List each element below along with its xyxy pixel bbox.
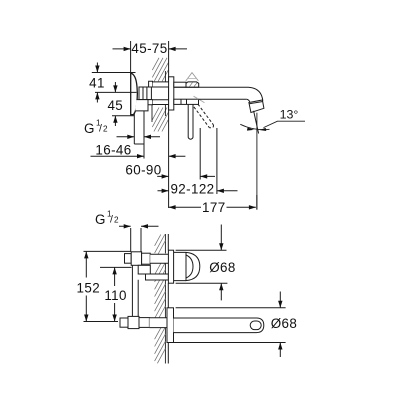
dim 45-75 tails and arrows <box>113 48 188 50</box>
lower tube trim <box>174 99 199 104</box>
spout escutcheon <box>167 308 174 343</box>
spout bottom line <box>199 98 247 100</box>
svg-text:Ø68: Ø68 <box>209 260 236 275</box>
wall hatch lower <box>152 108 168 132</box>
svg-text:13°: 13° <box>280 107 299 121</box>
aerator seam <box>250 102 263 104</box>
valve stub cap <box>125 254 132 264</box>
top tube collar <box>149 81 153 87</box>
bottom tube mask <box>153 100 169 104</box>
dim 177 right ext <box>256 195 258 210</box>
svg-text:G: G <box>95 212 106 227</box>
dim Ø68 spout <box>170 308 286 343</box>
G1/2 top label leader <box>117 136 161 138</box>
wall hatch upper <box>152 58 168 82</box>
dim 92-122 arrows <box>158 190 238 192</box>
handle dashed alternate <box>194 104 214 128</box>
svg-text:2: 2 <box>103 125 108 134</box>
spout tube inner end <box>250 321 261 330</box>
svg-text:60-90: 60-90 <box>125 163 161 178</box>
dim 45-75 ext bar left <box>130 41 132 73</box>
svg-text:92-122: 92-122 <box>170 181 214 196</box>
svg-text:16-46: 16-46 <box>95 143 131 158</box>
dim 45 ext line <box>112 115 135 117</box>
dim 110 <box>100 267 132 321</box>
dim 41 ext lines <box>92 73 137 93</box>
valve stub right <box>142 253 151 264</box>
housing division lines <box>143 87 147 100</box>
upper tube trim <box>174 82 186 87</box>
svg-text:152: 152 <box>77 281 101 296</box>
dim 45 arrows <box>114 82 116 126</box>
wall hatch bottom view <box>155 235 166 364</box>
13 deg arc arrowheads <box>247 128 266 132</box>
spout inner curve <box>247 99 250 102</box>
ext line x200 <box>199 128 201 180</box>
spray direction line 13deg <box>254 111 259 134</box>
spout outer curve <box>249 87 263 101</box>
spout tube through wall <box>149 318 168 328</box>
valve housing lower <box>135 100 148 111</box>
bracket vertical bar <box>132 265 138 316</box>
svg-text:2: 2 <box>114 216 119 225</box>
wall finished surface line <box>168 41 170 208</box>
rough-in box edge below tube <box>151 105 153 122</box>
spout nut <box>186 82 199 87</box>
spout center ext line <box>84 321 119 323</box>
svg-text:110: 110 <box>104 288 127 303</box>
spout stub right <box>139 318 149 328</box>
dim 152 <box>84 251 132 321</box>
valve escutcheon <box>168 250 173 283</box>
svg-text:41: 41 <box>89 75 105 90</box>
top tube mask <box>153 82 169 86</box>
rough-in flange dome <box>131 73 138 115</box>
lower tube divisions <box>181 99 187 104</box>
bracket block <box>138 265 150 274</box>
wall inner line lower <box>164 105 166 116</box>
svg-text:45: 45 <box>107 98 123 113</box>
trim flange plate <box>169 77 174 110</box>
ext line x217 <box>216 128 218 194</box>
top tube behind wall <box>149 82 169 87</box>
handle rod down <box>188 104 193 139</box>
svg-text:Ø68: Ø68 <box>271 316 298 331</box>
spout stub cap <box>120 318 128 327</box>
spout top line <box>174 86 249 88</box>
valve tube through wall <box>150 254 168 263</box>
wall surface line bottom view <box>167 234 169 364</box>
dim 41 arrows <box>96 63 98 103</box>
bottom tube behind wall <box>153 100 169 105</box>
G1/2 stub line left <box>133 113 135 145</box>
svg-text:45-75: 45-75 <box>131 41 167 56</box>
spout stub main <box>128 316 139 328</box>
dim 16-46 line <box>91 155 186 157</box>
G1/2 stub ext lines bottom view <box>131 228 141 252</box>
wall inner line upper <box>164 71 166 82</box>
knob inner arc <box>186 255 193 278</box>
bracket arm to wall <box>146 274 169 280</box>
vertical reference line from aerator <box>256 113 258 210</box>
13 deg leader <box>264 121 306 127</box>
13 deg arc <box>240 124 269 129</box>
knob body <box>174 252 186 280</box>
G1/2 stub line right <box>143 111 145 159</box>
nut tick marks <box>190 82 198 86</box>
dim G1/2 bottom label <box>119 225 159 227</box>
valve housing <box>139 87 151 100</box>
dim 177 line <box>169 206 256 208</box>
svg-text:/: / <box>99 123 102 135</box>
phantom handle raised (ghost) <box>186 73 205 103</box>
svg-text:G: G <box>84 121 95 136</box>
dim Ø68 valve <box>176 250 228 283</box>
spout tube long <box>174 318 264 333</box>
wall inner line bottom view <box>164 234 166 364</box>
G1/2 stub bottom cap <box>134 143 144 145</box>
lower step block <box>148 100 153 105</box>
aerator block <box>249 100 264 113</box>
svg-text:/: / <box>110 213 113 225</box>
svg-text:177: 177 <box>202 200 226 215</box>
valve stub main <box>131 252 141 265</box>
dim 60-90 line <box>157 175 215 177</box>
knob dome <box>186 252 200 280</box>
